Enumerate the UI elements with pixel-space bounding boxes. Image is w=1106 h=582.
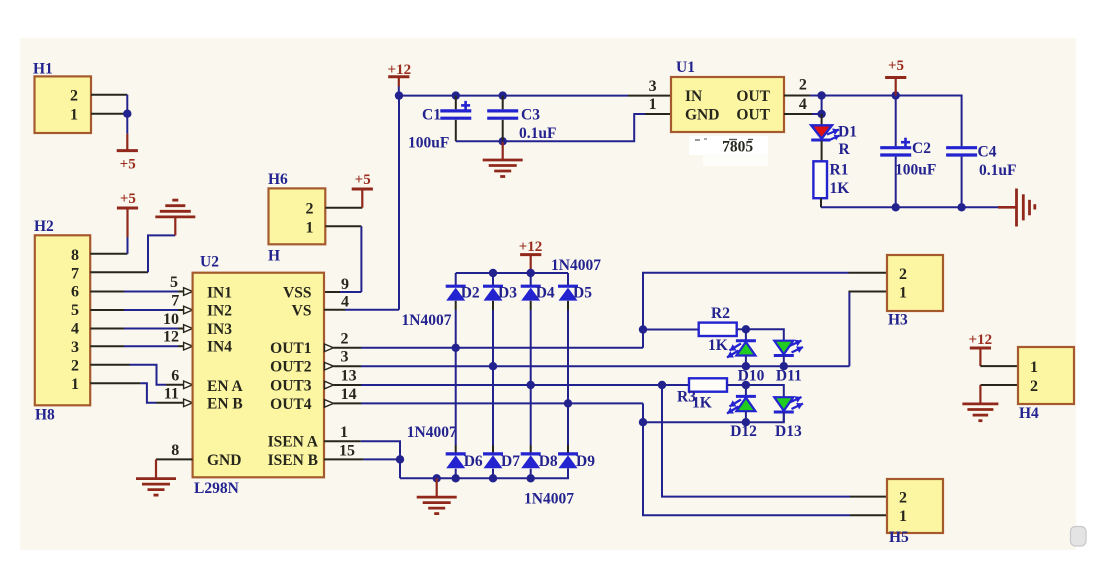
wire C3 bottom to U1 GND bbox=[503, 114, 645, 141]
svg-text:VS: VS bbox=[292, 302, 312, 319]
svg-text:ISEN A: ISEN A bbox=[268, 434, 319, 451]
svg-text:D2: D2 bbox=[461, 284, 480, 301]
svg-text:3: 3 bbox=[649, 78, 657, 95]
white patch + 7805 label bbox=[689, 136, 768, 155]
wire H2 pin5 to U2 IN2 bbox=[90, 309, 124, 311]
svg-text:100uF: 100uF bbox=[895, 162, 936, 179]
diode column D8 bbox=[530, 301, 532, 310]
svg-text:D6: D6 bbox=[464, 453, 483, 470]
svg-text:H6: H6 bbox=[268, 171, 288, 188]
svg-text:IN4: IN4 bbox=[207, 339, 232, 356]
svg-text:1K: 1K bbox=[830, 180, 850, 197]
wire R2 input to H3 pin2 bbox=[643, 273, 849, 330]
diode D7 1N4007 bbox=[483, 452, 503, 455]
power +5 (H6) bbox=[361, 189, 363, 208]
svg-text:4: 4 bbox=[799, 96, 807, 113]
svg-text:IN3: IN3 bbox=[207, 321, 232, 338]
svg-text:C4: C4 bbox=[978, 143, 997, 160]
scrollbar thumb (bottom right) bbox=[1071, 527, 1087, 547]
svg-text:U2: U2 bbox=[200, 254, 219, 271]
svg-text:D3: D3 bbox=[498, 284, 517, 301]
diode D9 1N4007 bbox=[558, 452, 578, 455]
wire ISEN A bbox=[324, 440, 361, 442]
svg-text:4: 4 bbox=[71, 321, 79, 338]
svg-text:6: 6 bbox=[71, 284, 79, 301]
wire OUT3 bbox=[334, 384, 362, 386]
pin arrow IN4 bbox=[184, 342, 193, 350]
junction C2 top bbox=[892, 91, 900, 99]
svg-text:1N4007: 1N4007 bbox=[407, 424, 457, 441]
svg-text:D13: D13 bbox=[775, 423, 802, 440]
capacitor C2 100uF bbox=[895, 96, 897, 147]
pin arrow IN2 bbox=[184, 306, 193, 314]
svg-text:6: 6 bbox=[171, 367, 179, 384]
earth ground (right) bbox=[998, 206, 1016, 209]
svg-text:GND: GND bbox=[207, 452, 241, 469]
svg-text:1: 1 bbox=[306, 219, 314, 236]
svg-text:H5: H5 bbox=[889, 529, 909, 546]
svg-text:IN: IN bbox=[685, 88, 702, 105]
junction C2 bottom bbox=[892, 203, 900, 211]
junction OUT3 branch H5 bbox=[658, 381, 666, 389]
diode column D7 bbox=[492, 301, 494, 310]
svg-text:+5: +5 bbox=[120, 157, 136, 173]
wire R2 out to D11 bbox=[746, 329, 784, 340]
svg-text:7: 7 bbox=[71, 265, 79, 282]
power +5 (above C2) bbox=[895, 78, 897, 96]
capacitor C1 100uF bbox=[455, 96, 457, 110]
junction C4 bottom bbox=[957, 203, 965, 211]
pin arrow OUT3 bbox=[325, 381, 334, 389]
junction D11 bottom bbox=[780, 362, 788, 370]
connector H6 bbox=[269, 188, 326, 244]
wire +5 rail (top right) bbox=[822, 96, 962, 147]
svg-text:U1: U1 bbox=[676, 59, 695, 76]
wire H5 pin2 branch bbox=[662, 385, 850, 497]
diode column D6 bbox=[455, 301, 457, 310]
svg-text:1K: 1K bbox=[692, 395, 712, 412]
ground (U2 GND) bbox=[155, 459, 157, 478]
junction OUT pin4 bbox=[817, 110, 825, 118]
pin arrow EN A bbox=[184, 381, 193, 389]
wire D6 to rail bbox=[455, 469, 457, 479]
wire H2 pin4 to U2 IN3 bbox=[90, 328, 124, 330]
svg-text:+12: +12 bbox=[969, 332, 993, 348]
svg-text:4: 4 bbox=[341, 294, 349, 311]
junction OUT pin2 bbox=[817, 91, 825, 99]
svg-text:EN B: EN B bbox=[207, 396, 243, 413]
svg-text:D9: D9 bbox=[576, 453, 595, 470]
diode D8 1N4007 bbox=[521, 452, 541, 455]
wire H2 pin7 to ground bbox=[90, 271, 148, 273]
wire U1 OUT pin2 bbox=[784, 95, 810, 97]
wire H2 pin6 to U2 IN1 bbox=[90, 291, 124, 293]
junction rail col D6 bbox=[452, 474, 460, 482]
svg-text:IN2: IN2 bbox=[207, 302, 232, 319]
svg-text:OUT3: OUT3 bbox=[270, 378, 312, 395]
svg-text:1: 1 bbox=[899, 508, 907, 525]
svg-text:2: 2 bbox=[71, 358, 79, 375]
junction rail col D7 bbox=[489, 474, 497, 482]
svg-text:H4: H4 bbox=[1019, 405, 1039, 422]
svg-text:D5: D5 bbox=[573, 284, 592, 301]
svg-text:D1: D1 bbox=[838, 124, 857, 141]
wire OUT4 bbox=[334, 402, 362, 404]
svg-text:10: 10 bbox=[163, 311, 179, 328]
svg-text:8: 8 bbox=[171, 442, 179, 459]
junction R2 output bbox=[742, 325, 750, 333]
svg-text:5: 5 bbox=[71, 302, 79, 319]
LED D1 bbox=[821, 114, 823, 126]
svg-text:11: 11 bbox=[164, 385, 179, 402]
resistor R3 1K bbox=[689, 378, 727, 391]
wire U2 GND to ground bbox=[156, 458, 193, 460]
resistor R2 1K bbox=[699, 323, 737, 336]
junction C1 top bbox=[452, 91, 460, 99]
svg-text:D8: D8 bbox=[539, 453, 558, 470]
svg-text:2: 2 bbox=[70, 88, 78, 105]
svg-text:12: 12 bbox=[163, 329, 179, 346]
junction C3 top bbox=[499, 91, 507, 99]
capacitor C3 0.1uF bbox=[502, 96, 504, 110]
svg-text:1: 1 bbox=[70, 107, 78, 124]
svg-text:1: 1 bbox=[1030, 359, 1038, 376]
junction ISEN node bbox=[396, 455, 404, 463]
diode D5 1N4007 bbox=[567, 273, 569, 286]
svg-text:R1: R1 bbox=[830, 162, 849, 179]
svg-text:H1: H1 bbox=[33, 61, 53, 78]
junction rail col D4 +12 bbox=[527, 269, 535, 277]
LED D10 bbox=[745, 329, 747, 340]
pin arrow OUT4 bbox=[325, 400, 334, 408]
svg-text:5: 5 bbox=[170, 274, 178, 291]
junction +12 node bbox=[395, 91, 403, 99]
connector H4 bbox=[1018, 347, 1074, 404]
LED D12 bbox=[745, 385, 747, 396]
svg-text:7805: 7805 bbox=[722, 139, 753, 156]
svg-text:H3: H3 bbox=[888, 312, 908, 329]
ground (H4) bbox=[979, 385, 981, 404]
junction OUT2 col D3 bbox=[489, 362, 497, 370]
junction OUT1 col D2 bbox=[452, 344, 460, 352]
resistor R1 1K bbox=[821, 141, 823, 162]
diode D6 1N4007 bbox=[446, 452, 466, 455]
svg-text:15: 15 bbox=[339, 443, 355, 460]
svg-text:3: 3 bbox=[341, 349, 349, 366]
ground (bridge) bbox=[436, 478, 438, 497]
wire U2 VS to +12 rail bbox=[324, 309, 345, 311]
svg-text:H2: H2 bbox=[34, 218, 54, 235]
svg-text:C1: C1 bbox=[422, 106, 441, 123]
wire top rail to U1 IN bbox=[399, 95, 628, 97]
junction R2 input bbox=[639, 325, 647, 333]
junction D12 bottom bbox=[742, 418, 750, 426]
svg-text:3: 3 bbox=[71, 339, 79, 356]
svg-text:2: 2 bbox=[799, 76, 807, 93]
wire H2 pin2 to U2 EN A bbox=[90, 364, 129, 366]
wire U1 OUT pin4 bbox=[784, 113, 812, 115]
junction C3 bottom bbox=[499, 137, 507, 145]
svg-text:C3: C3 bbox=[521, 106, 540, 123]
wire H1 pin2 bbox=[91, 94, 127, 96]
junction OUT4 col D5 bbox=[564, 399, 572, 407]
svg-text:VSS: VSS bbox=[283, 285, 311, 302]
wire H4 pin2 bbox=[980, 384, 1018, 386]
svg-text:100uF: 100uF bbox=[408, 135, 449, 152]
junction OUT4 branch D12/D13 bbox=[639, 418, 647, 426]
wire H6 pin2 to +5 bbox=[325, 207, 362, 209]
wire D7 to rail bbox=[492, 469, 494, 479]
diode D3 1N4007 bbox=[492, 273, 494, 286]
svg-text:1: 1 bbox=[899, 285, 907, 302]
diode D2 1N4007 bbox=[455, 273, 457, 286]
op-amp U2 L298N bbox=[193, 273, 324, 478]
svg-text:+5: +5 bbox=[355, 172, 371, 188]
diode column D9 bbox=[567, 301, 569, 310]
svg-text:D7: D7 bbox=[501, 453, 520, 470]
wire OUT2 bbox=[334, 365, 362, 367]
svg-text:IN1: IN1 bbox=[207, 285, 232, 302]
svg-text:D4: D4 bbox=[536, 284, 555, 301]
regulator U1 7805 bbox=[671, 77, 784, 132]
wire +12 main vertical bbox=[398, 96, 400, 310]
power +5 (H1) bbox=[126, 134, 128, 151]
connector H5 bbox=[887, 479, 943, 533]
wire D8 to rail bbox=[530, 469, 532, 479]
svg-text:2: 2 bbox=[1030, 378, 1038, 395]
svg-text:OUT: OUT bbox=[736, 88, 770, 105]
connector H3 bbox=[887, 255, 943, 311]
junction OUT3 col D4 bbox=[527, 381, 535, 389]
svg-text:D12: D12 bbox=[730, 423, 757, 440]
junction rail col D8 bbox=[527, 474, 535, 482]
pin arrow IN1 bbox=[184, 288, 193, 296]
svg-text:14: 14 bbox=[341, 386, 357, 403]
junction H1 bbox=[123, 110, 131, 118]
svg-text:D10: D10 bbox=[738, 368, 765, 385]
wire D12/D13 bottom bbox=[643, 411, 784, 422]
svg-text:2: 2 bbox=[899, 490, 907, 507]
svg-text:2: 2 bbox=[341, 330, 349, 347]
connector H1 bbox=[35, 76, 92, 133]
power +5 (H2) bbox=[126, 208, 128, 237]
LED D13 bbox=[774, 397, 793, 411]
svg-text:1K: 1K bbox=[708, 337, 728, 354]
svg-text:OUT: OUT bbox=[736, 107, 770, 124]
wire OUT1 bbox=[334, 347, 362, 349]
junction R3 output bbox=[742, 381, 750, 389]
LED D11 bbox=[774, 341, 793, 355]
wire H2 pin8 to +5 bbox=[90, 253, 127, 255]
ground (below C3) bbox=[502, 141, 504, 160]
capacitor C4 0.1uF bbox=[946, 146, 977, 149]
svg-text:1N4007: 1N4007 bbox=[524, 490, 574, 507]
svg-text:9: 9 bbox=[341, 276, 349, 293]
junction rail ground bbox=[433, 474, 441, 482]
svg-text:1N4007: 1N4007 bbox=[551, 257, 601, 274]
connector H2 bbox=[35, 235, 90, 405]
svg-text:2: 2 bbox=[899, 266, 907, 283]
svg-text:OUT2: OUT2 bbox=[270, 359, 312, 376]
diode D4 1N4007 bbox=[530, 273, 532, 286]
pin arrow OUT2 bbox=[325, 362, 334, 370]
svg-text:+5: +5 bbox=[888, 58, 904, 74]
wire ground rail (top right) bbox=[821, 206, 998, 208]
svg-text:EN A: EN A bbox=[207, 378, 244, 395]
svg-text:13: 13 bbox=[341, 368, 357, 385]
junction rail col D3 bbox=[489, 269, 497, 277]
svg-text:OUT4: OUT4 bbox=[270, 396, 312, 413]
svg-text:H8: H8 bbox=[35, 407, 55, 424]
wire H6 pin1 to U2 VSS bbox=[325, 225, 361, 227]
ground (above H2) bbox=[174, 217, 176, 236]
svg-text:GND: GND bbox=[685, 107, 719, 124]
svg-text:H: H bbox=[268, 248, 280, 265]
wire bridge bottom rail bbox=[400, 468, 568, 478]
wire H2 pin3 to U2 IN4 bbox=[90, 345, 124, 347]
svg-text:+5: +5 bbox=[120, 191, 136, 207]
svg-text:1N4007: 1N4007 bbox=[402, 312, 452, 329]
pin arrow IN3 bbox=[184, 325, 193, 333]
wire bridge top rail bbox=[456, 272, 568, 274]
svg-text:1: 1 bbox=[340, 424, 348, 441]
svg-text:1: 1 bbox=[71, 376, 79, 393]
svg-text:0.1uF: 0.1uF bbox=[519, 125, 556, 142]
svg-text:1: 1 bbox=[649, 96, 657, 113]
svg-text:L298N: L298N bbox=[194, 480, 239, 497]
wire ISEN B bbox=[324, 458, 363, 460]
svg-text:OUT1: OUT1 bbox=[270, 340, 311, 357]
svg-text:8: 8 bbox=[71, 247, 79, 264]
junction D10 bottom bbox=[742, 362, 750, 370]
wire H4 pin1 bbox=[980, 365, 1018, 367]
pin arrow EN B bbox=[184, 399, 193, 407]
svg-text:C2: C2 bbox=[912, 140, 931, 157]
svg-text:ISEN B: ISEN B bbox=[268, 452, 318, 469]
svg-text:R: R bbox=[839, 141, 851, 158]
svg-text:+12: +12 bbox=[519, 239, 543, 255]
wire C1 to C3 bottom bbox=[456, 140, 503, 142]
wire H1 pin1 bbox=[91, 113, 127, 115]
svg-text:7: 7 bbox=[171, 293, 179, 310]
svg-text:D11: D11 bbox=[776, 368, 802, 385]
wire R3 out to D13 bbox=[746, 385, 784, 397]
wire H2 pin1 to U2 EN B bbox=[90, 382, 140, 384]
pin arrow OUT1 bbox=[325, 344, 334, 352]
wire pin2 to pin4 bbox=[821, 96, 823, 115]
wire H1 to +5 bbox=[126, 95, 128, 134]
svg-text:R2: R2 bbox=[711, 305, 730, 322]
svg-text:2: 2 bbox=[306, 201, 314, 218]
svg-text:0.1uF: 0.1uF bbox=[979, 162, 1016, 179]
